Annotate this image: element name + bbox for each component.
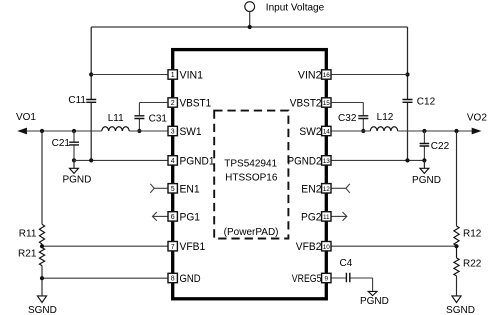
svg-text:11: 11 <box>323 214 330 221</box>
pin 3 <box>168 126 177 135</box>
wire C4 to ground <box>372 278 374 291</box>
svg-text:VBST1: VBST1 <box>180 98 212 110</box>
svg-text:(PowerPAD): (PowerPAD) <box>224 227 279 238</box>
wire input drop <box>249 12 251 28</box>
node C22 top junction <box>422 129 426 133</box>
ground SGND right <box>452 296 461 303</box>
power-good PG1 stub <box>153 212 169 221</box>
svg-text:GND: GND <box>180 273 201 285</box>
resistor R21 <box>39 244 44 296</box>
svg-text:PGND1: PGND1 <box>180 155 215 167</box>
node R12 top junction <box>454 129 458 133</box>
svg-text:VBST2: VBST2 <box>290 98 322 110</box>
svg-text:PGND: PGND <box>62 175 91 186</box>
svg-text:4: 4 <box>171 158 175 165</box>
arrow VO2 <box>472 128 482 135</box>
svg-text:C21: C21 <box>52 138 71 149</box>
svg-text:PG2: PG2 <box>301 211 322 223</box>
node C11 bottom junction <box>89 158 93 162</box>
wire GND <box>42 277 168 279</box>
svg-text:C12: C12 <box>417 96 436 107</box>
svg-text:8: 8 <box>171 276 175 283</box>
pin 6 <box>168 212 177 221</box>
node C21 bottom junction <box>72 158 76 162</box>
svg-text:L12: L12 <box>377 112 394 123</box>
node VO1 divider junction <box>40 129 44 133</box>
pin 14 <box>322 126 331 135</box>
svg-text:C22: C22 <box>431 141 450 152</box>
node C21 top junction <box>72 129 76 133</box>
svg-text:7: 7 <box>171 244 175 251</box>
inductor L12 <box>370 127 397 131</box>
op-amp U1 TPS542941 body <box>173 50 327 299</box>
svg-text:6: 6 <box>171 214 175 221</box>
pin 9 <box>322 273 331 282</box>
pin 1 <box>168 70 177 79</box>
resistor R11 <box>39 131 44 244</box>
svg-text:SW1: SW1 <box>180 126 202 138</box>
wire L12 to VO2 <box>398 130 472 132</box>
capacitor C22 <box>420 131 430 160</box>
wire VIN1 <box>91 74 168 76</box>
svg-text:VFB2: VFB2 <box>296 241 322 253</box>
pin 7 <box>168 242 177 251</box>
pin 12 <box>322 184 331 193</box>
capacitor C12 <box>403 100 413 103</box>
svg-text:C31: C31 <box>149 113 168 124</box>
wire PGND1 <box>74 159 168 161</box>
pin 4 <box>168 156 177 165</box>
svg-text:SGND: SGND <box>446 305 475 315</box>
node VIN1 junction <box>89 72 93 76</box>
svg-text:VFB1: VFB1 <box>180 241 206 253</box>
pin 16 <box>322 70 331 79</box>
wire VFB2 <box>331 245 457 247</box>
svg-text:PG1: PG1 <box>180 211 201 223</box>
node C31 bottom junction <box>137 129 141 133</box>
svg-text:SGND: SGND <box>28 305 57 315</box>
inductor L11 <box>102 127 129 131</box>
pin 13 <box>322 156 331 165</box>
wire left input branch vertical <box>90 27 92 160</box>
enable EN2 stub <box>331 184 350 193</box>
svg-text:TPS542941: TPS542941 <box>224 159 277 170</box>
ground PGND right <box>420 160 429 173</box>
wire PGND2 <box>331 159 424 161</box>
power-good PG2 stub <box>331 212 347 221</box>
wire VFB1 <box>42 245 168 247</box>
svg-text:16: 16 <box>323 72 331 79</box>
node VFB2 junction <box>454 244 458 248</box>
svg-text:1: 1 <box>171 72 175 79</box>
capacitor C31 <box>134 103 168 132</box>
svg-text:10: 10 <box>323 244 331 251</box>
svg-text:VIN2: VIN2 <box>298 70 322 82</box>
capacitor C4 <box>331 273 373 283</box>
svg-text:VO1: VO1 <box>16 112 36 123</box>
svg-text:VIN1: VIN1 <box>180 70 204 82</box>
svg-text:EN1: EN1 <box>180 183 200 195</box>
svg-text:3: 3 <box>171 129 175 136</box>
node GND junction <box>40 276 44 280</box>
arrow VO1 <box>17 128 27 135</box>
resistor R22 <box>454 246 459 296</box>
svg-text:VREG5: VREG5 <box>292 273 322 285</box>
svg-text:13: 13 <box>323 158 331 165</box>
wire right input branch vertical <box>407 27 409 160</box>
svg-text:14: 14 <box>323 129 331 136</box>
wire top rail <box>91 26 407 28</box>
pin 10 <box>322 242 331 251</box>
svg-text:VO2: VO2 <box>467 113 487 124</box>
ground PGND left <box>70 160 79 173</box>
svg-text:PGND: PGND <box>412 175 441 186</box>
svg-text:Input Voltage: Input Voltage <box>266 2 325 13</box>
capacitor C21 <box>69 131 79 160</box>
node C12 bottom junction <box>405 158 409 162</box>
wire VIN2 <box>331 74 408 76</box>
capacitor C11 <box>86 100 96 103</box>
PowerPAD dashed outline <box>214 111 288 239</box>
svg-text:SW2: SW2 <box>299 126 321 138</box>
svg-text:R12: R12 <box>463 228 482 239</box>
svg-text:C4: C4 <box>340 258 353 269</box>
svg-text:PGND2: PGND2 <box>288 155 322 167</box>
pin 2 <box>168 98 177 107</box>
wire SW2 <box>331 130 370 132</box>
svg-text:12: 12 <box>323 186 331 193</box>
svg-text:9: 9 <box>325 276 329 283</box>
node VIN2 junction <box>405 72 409 76</box>
svg-text:C11: C11 <box>68 95 86 106</box>
ground SGND left <box>37 296 46 303</box>
svg-text:15: 15 <box>323 100 331 107</box>
enable EN1 stub <box>150 184 168 193</box>
svg-text:PGND: PGND <box>360 296 389 307</box>
svg-text:C32: C32 <box>338 113 357 124</box>
pin 15 <box>322 98 331 107</box>
wire VO1/SW1 <box>26 130 102 132</box>
pin 11 <box>322 212 331 221</box>
svg-text:R21: R21 <box>18 249 37 260</box>
ground PGND C4 <box>368 291 377 295</box>
svg-text:5: 5 <box>171 186 175 193</box>
svg-text:2: 2 <box>171 100 175 107</box>
node input junction <box>248 25 252 29</box>
svg-text:HTSSOP16: HTSSOP16 <box>225 173 278 184</box>
node C32 bottom junction <box>361 129 365 133</box>
node VFB1 junction <box>40 244 44 248</box>
svg-text:EN2: EN2 <box>301 183 321 195</box>
input terminal circle <box>245 2 255 12</box>
node C22 bottom junction <box>422 158 426 162</box>
wire L11 to SW1 <box>129 130 168 132</box>
svg-text:L11: L11 <box>108 113 124 124</box>
svg-text:R22: R22 <box>463 259 482 270</box>
pin 5 <box>168 184 177 193</box>
capacitor C32 <box>331 103 368 132</box>
pin 8 <box>168 273 177 282</box>
svg-text:R11: R11 <box>19 228 37 239</box>
resistor R12 <box>454 131 459 246</box>
